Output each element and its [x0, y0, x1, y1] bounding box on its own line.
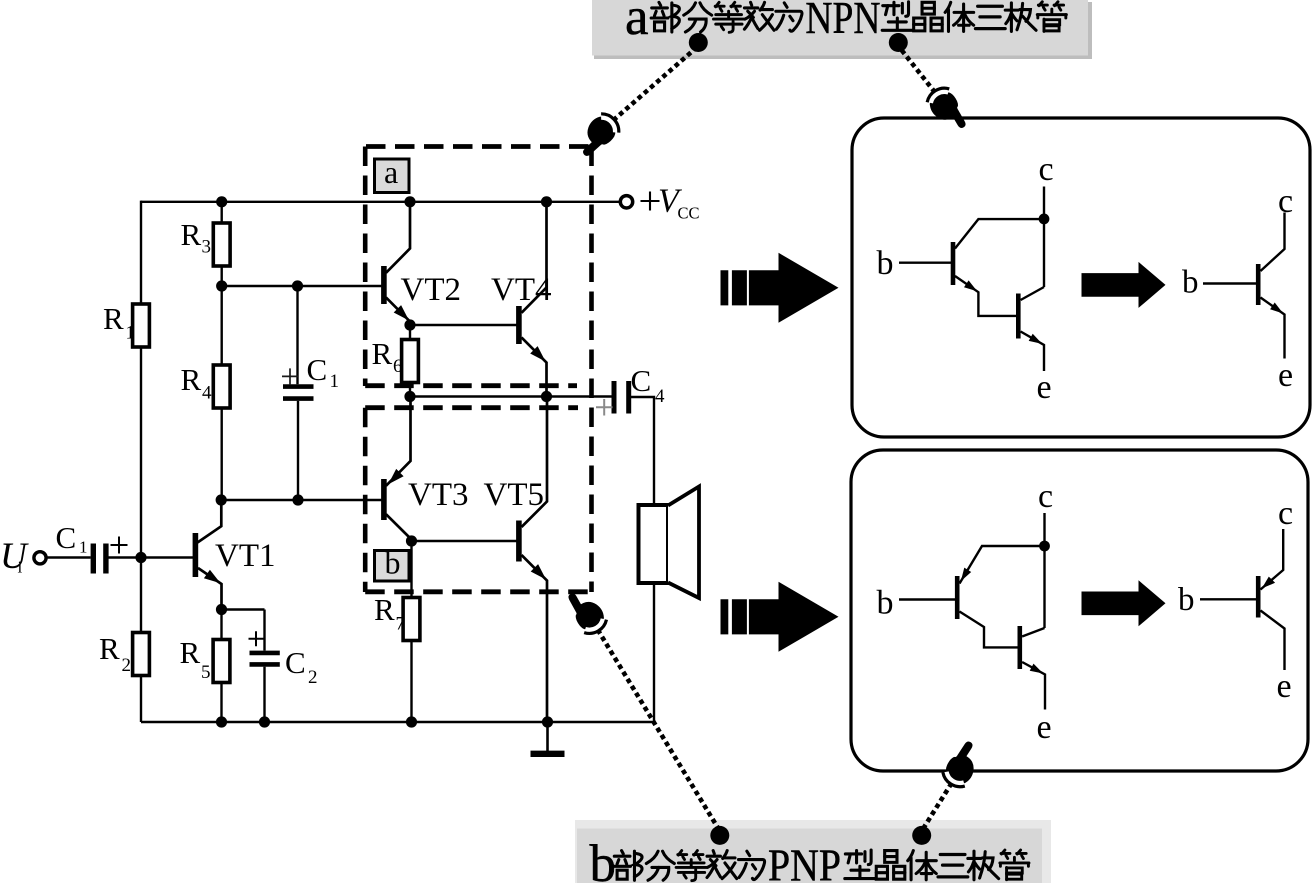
wire VT5 base [412, 540, 517, 542]
svg-text:R: R [374, 592, 395, 627]
transistor VT4 [516, 202, 546, 397]
label VT3 [408, 477, 469, 513]
wire bottom ground rail [141, 721, 654, 723]
callout label a (top) [592, 0, 1092, 59]
svg-text:VT2: VT2 [401, 272, 462, 308]
label b simple PNP [1178, 582, 1195, 618]
wire base simple NPN [1203, 282, 1256, 284]
resistor R5 [213, 610, 230, 723]
node C2 bottom [259, 716, 270, 727]
svg-text:e: e [1277, 668, 1292, 705]
svg-text:e: e [1037, 369, 1052, 406]
transistor simple NPN [1256, 213, 1285, 359]
tag b [375, 545, 410, 582]
dotted leader b-left [594, 623, 720, 831]
label R4 [181, 362, 213, 404]
label VT2 [401, 272, 462, 308]
label e simple NPN [1278, 357, 1293, 394]
svg-text:CC: CC [678, 204, 700, 223]
wire base simple PNP [1200, 598, 1256, 600]
wire top supply rail [141, 201, 620, 203]
svg-text:a: a [625, 0, 649, 46]
svg-text:b: b [877, 245, 894, 282]
node VT3 collector / R7 top [406, 535, 417, 546]
svg-text:VT5: VT5 [484, 477, 545, 513]
label b simple NPN [1182, 265, 1199, 301]
transistor T1 composite NPN [951, 219, 1044, 316]
svg-text:b: b [877, 585, 894, 622]
svg-text:PNP: PNP [768, 840, 841, 883]
rounded box NPN equivalent [852, 118, 1310, 437]
label C1 bypass [307, 352, 340, 392]
node R4/VT1-collector junction [216, 494, 227, 505]
node output right [541, 391, 552, 402]
plus sign C2 [249, 631, 264, 646]
svg-text:R: R [180, 635, 201, 670]
label R1 [103, 301, 135, 344]
svg-text:C: C [285, 645, 306, 680]
callout dot a-left [689, 33, 708, 52]
node R3 top on supply rail [216, 196, 227, 207]
ground [531, 722, 565, 754]
svg-text:U: U [0, 536, 29, 577]
svg-text:R: R [181, 217, 202, 252]
node R5 bottom [216, 716, 227, 727]
svg-text:e: e [1037, 709, 1052, 746]
svg-text:e: e [1278, 357, 1293, 394]
svg-text:3: 3 [202, 237, 212, 258]
svg-text:R: R [103, 301, 124, 336]
dotted leader b-right [922, 776, 956, 831]
svg-text:b: b [1178, 582, 1195, 618]
tag a [375, 154, 410, 193]
speaker [639, 487, 700, 723]
capacitor C2 [250, 610, 280, 723]
node VT2 emitter / R6 top [404, 319, 415, 330]
pointing hand at NPN box [924, 84, 971, 137]
svg-text:5: 5 [201, 662, 211, 683]
svg-text:7: 7 [396, 614, 406, 635]
wire base composite PNP [899, 598, 955, 600]
dashed box a left edge [363, 147, 368, 387]
terminal +Vcc [620, 183, 699, 223]
pointing hand at PNP box [940, 738, 987, 791]
capacitor C1 bypass [283, 286, 314, 500]
svg-text:6: 6 [393, 356, 403, 377]
big arrow to NPN box [721, 253, 839, 323]
svg-text:c: c [1278, 495, 1293, 532]
wire c composite NPN [1043, 187, 1045, 288]
resistor R2 [133, 633, 150, 676]
label VT5 [484, 477, 545, 513]
transistor VT3 [381, 397, 411, 540]
dotted leader a-left [607, 46, 698, 126]
wire VT4 base [410, 324, 517, 326]
svg-text:i: i [18, 558, 23, 577]
svg-text:R: R [181, 362, 202, 397]
svg-text:VT4: VT4 [491, 272, 552, 308]
wire VT3 base [221, 499, 381, 501]
svg-text:c: c [1278, 183, 1293, 220]
dashed box b bottom edge [365, 589, 591, 594]
wire c composite PNP [1043, 513, 1045, 628]
label VT1 [215, 538, 276, 574]
svg-text:a: a [384, 154, 398, 190]
node VT1 emitter / R5 top [216, 604, 227, 615]
resistor R6 [402, 325, 419, 397]
transistor T2 composite NPN [1016, 287, 1044, 371]
plus sign C1 bypass [282, 368, 298, 384]
svg-text:b: b [385, 545, 401, 581]
wire VT2 base [222, 285, 382, 287]
pointing hand at box a [571, 109, 623, 160]
node VT5 emitter bottom [542, 716, 553, 727]
node VT4 collector on rail [541, 196, 552, 207]
svg-text:1: 1 [79, 538, 88, 557]
node VT1 base / C1 junction [135, 552, 146, 563]
dashed box a bottom edge [365, 383, 577, 388]
label b composite PNP [877, 585, 894, 622]
plus sign C1 input [111, 537, 128, 554]
wire VT1 base [141, 556, 193, 558]
svg-text:c: c [1039, 151, 1054, 188]
dashed box a top edge [366, 144, 592, 149]
node output left [404, 391, 415, 402]
capacitor C4 [614, 381, 654, 505]
rounded box PNP equivalent [851, 450, 1308, 771]
label e simple PNP [1277, 668, 1292, 705]
svg-text:1: 1 [330, 371, 340, 392]
resistor R3 [213, 202, 230, 287]
label R5 [180, 635, 211, 683]
transistor VT1 [193, 500, 222, 610]
terminal Ui [0, 536, 46, 577]
callout label b (bottom) [575, 820, 1051, 883]
dotted leader a-right [898, 46, 940, 99]
label b composite NPN [877, 245, 894, 282]
node VT2 collector on rail [404, 196, 415, 207]
label C2 [285, 645, 318, 688]
callout dot b-left [710, 826, 729, 845]
wire base composite NPN [899, 262, 951, 264]
label R7 [374, 592, 405, 635]
label c composite NPN [1039, 151, 1054, 188]
svg-text:C: C [631, 363, 652, 398]
dashed box b left edge [363, 408, 368, 592]
svg-text:b: b [1182, 265, 1199, 301]
svg-text:b: b [590, 835, 617, 883]
label VT4 [491, 272, 552, 308]
label e composite PNP [1037, 709, 1052, 746]
svg-text:2: 2 [122, 655, 132, 676]
svg-text:R: R [372, 336, 393, 371]
wire emitter to C2 [222, 608, 265, 610]
node R3/R4 junction [216, 280, 227, 291]
node C1 bypass top [292, 280, 303, 291]
transistor T2 composite PNP [1018, 626, 1046, 710]
svg-text:C: C [307, 352, 328, 387]
transistor simple PNP [1256, 529, 1285, 670]
resistor R4 [213, 286, 230, 500]
svg-text:1: 1 [126, 323, 136, 344]
callout dot a-right [889, 33, 908, 52]
svg-text:VT3: VT3 [408, 477, 469, 513]
svg-text:c: c [1038, 478, 1053, 515]
label R6 [372, 336, 403, 377]
label c simple NPN [1278, 183, 1293, 220]
node composite PNP collector junction [1039, 541, 1050, 552]
dashed shared right edge [589, 147, 594, 593]
svg-text:2: 2 [308, 667, 318, 688]
dashed box b top edge [365, 405, 578, 410]
transistor VT2 [381, 202, 410, 325]
wire left rail [140, 201, 142, 722]
node R7 bottom [406, 716, 417, 727]
label c simple PNP [1278, 495, 1293, 532]
resistor R1 [133, 304, 150, 347]
plus sign C4 [596, 399, 613, 416]
wire output rail to C4 [410, 395, 612, 397]
label e composite NPN [1037, 369, 1052, 406]
svg-text:4: 4 [202, 383, 212, 404]
transistor T1 composite PNP [955, 546, 1045, 647]
resistor R7 [403, 541, 420, 722]
capacitor C1 input [47, 544, 142, 574]
pointing hand at box b [563, 584, 610, 637]
label R3 [181, 217, 212, 258]
svg-text:R: R [99, 631, 120, 666]
label C4 [631, 363, 666, 407]
node composite NPN collector junction [1039, 214, 1050, 225]
label C1 input [56, 520, 88, 557]
small arrow inside PNP box [1082, 580, 1166, 626]
svg-text:VT1: VT1 [215, 538, 276, 574]
big arrow to PNP box [721, 582, 839, 652]
transistor VT5 [516, 397, 547, 723]
label R2 [99, 631, 131, 676]
small arrow inside NPN box [1082, 262, 1166, 308]
svg-text:4: 4 [655, 386, 665, 407]
svg-text:NPN: NPN [805, 0, 880, 43]
node C1 bypass bottom [292, 494, 303, 505]
svg-text:C: C [56, 520, 77, 555]
label c composite PNP [1038, 478, 1053, 515]
callout dot b-right [912, 826, 931, 845]
